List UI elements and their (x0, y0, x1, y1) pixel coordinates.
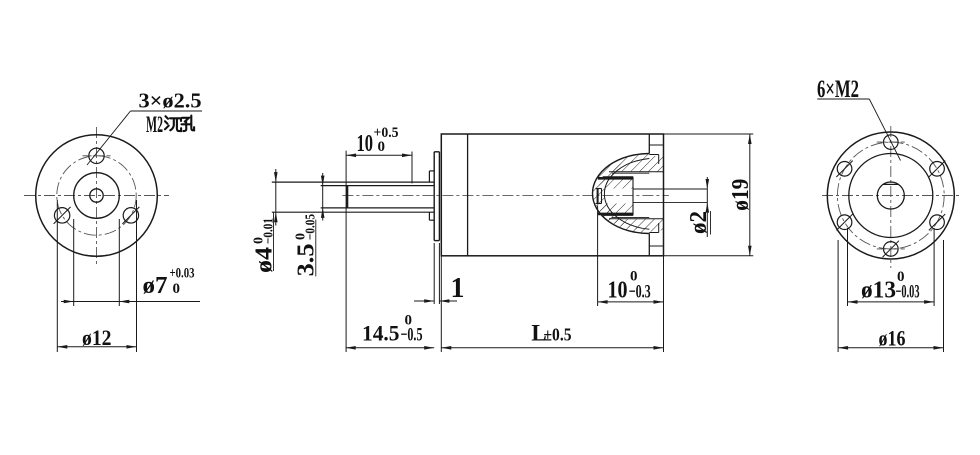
rear bearing dome inner arc (604, 159, 649, 230)
svg-text:0: 0 (378, 139, 386, 155)
right view M2 hole at 150° (837, 162, 852, 177)
left view lower-right hole slash (122, 207, 139, 224)
bearing cap top (596, 188, 602, 190)
ø16 arrow right (934, 346, 944, 350)
svg-text:−0.3: −0.3 (629, 281, 651, 302)
ø13 extension line left (847, 228, 849, 306)
right view M2 hole at 270° (884, 242, 899, 257)
boss top line (429, 170, 434, 172)
svg-text:−0.01: −0.01 (262, 218, 277, 244)
3.5 dimension line (322, 173, 324, 221)
1 dimension line right part (439, 300, 457, 302)
boss bottom line (429, 219, 434, 221)
ø16 dimension line (838, 347, 943, 349)
svg-text:ø2: ø2 (686, 211, 712, 234)
ø4 label underline (273, 212, 275, 271)
leader line to top hole (87, 111, 131, 165)
end cap crimp tick bottom (649, 245, 663, 247)
body left edge lower extension (440, 256, 442, 352)
right view vertical centerline (890, 126, 892, 268)
bearing cap inner edge (601, 189, 603, 204)
character 孔 (182, 116, 195, 132)
end cap seam lower (648, 233, 650, 255)
rear 10 arrow right (654, 300, 664, 304)
ø13 arrow right (924, 300, 934, 304)
ø2 dimension line (706, 177, 708, 237)
L dimension line (441, 347, 663, 349)
bottom band inner line (612, 216, 649, 218)
10 shaft dim extension left (345, 151, 347, 352)
ø16 extension line left (837, 240, 839, 352)
motor body outline (441, 134, 663, 256)
ø7 arrow right (119, 300, 129, 304)
svg-text:−0.05: −0.05 (304, 214, 319, 240)
rear shaft stub top line / ø2 extension (633, 188, 707, 190)
right view horizontal centerline (822, 195, 959, 197)
rear 10 arrow left (598, 300, 608, 304)
right view center bearing circle (877, 182, 904, 209)
top band line (609, 171, 664, 173)
svg-text:ø19: ø19 (728, 179, 754, 211)
bottom band hatch (607, 219, 663, 232)
top band inner line (612, 172, 649, 174)
left view lower-left hole slash (54, 207, 71, 224)
character 沉 (165, 116, 181, 131)
M2 hole slash at 210° (836, 214, 852, 230)
right view motor outline circle ø19 (827, 132, 954, 259)
dome ring hatch (593, 154, 650, 234)
ø19 arrow top (748, 134, 752, 144)
svg-text:±0.5: ±0.5 (544, 325, 572, 345)
svg-text:14.5: 14.5 (362, 321, 400, 346)
ø7 extension line left (73, 219, 75, 306)
svg-text:−0.03: −0.03 (896, 281, 920, 302)
bottom band line (609, 218, 664, 220)
right view M2 hole at 330° (930, 215, 945, 230)
bearing right edge (632, 177, 634, 216)
rear shaft stub bottom line / ø2 extension (633, 202, 707, 204)
10 shaft arrow left (346, 154, 356, 158)
end cap crimp tick top (649, 144, 663, 146)
front plate top edge (434, 151, 439, 153)
3.5 label underline (315, 220, 317, 277)
svg-text:ø16: ø16 (879, 325, 906, 350)
svg-text:+0.03: +0.03 (170, 266, 195, 282)
3.5 arrow top (321, 176, 325, 186)
svg-text:3×ø2.5: 3×ø2.5 (139, 89, 202, 113)
right view M2 hole at 90° (884, 135, 899, 150)
ø13 dimension line (848, 301, 935, 303)
ø2 arrow bottom (706, 203, 710, 213)
shaft top flat line 3.5 (321, 185, 435, 187)
middle view centerline (342, 195, 669, 197)
M2 hole slash at 150° (836, 161, 852, 177)
ø12 dimension line (57, 346, 136, 348)
14.5 arrow left (346, 346, 356, 350)
1 arrow right (439, 299, 449, 303)
svg-text:0: 0 (173, 281, 181, 297)
bearing bottom edge thin (603, 214, 633, 216)
crimp step bottom vertical (658, 223, 660, 233)
ø12 extension line left (56, 200, 58, 352)
rear 10 dim extension line (597, 206, 599, 307)
ø19 extension line bottom (664, 255, 754, 257)
M2 hole slash at 30° (929, 161, 945, 177)
gearbox/motor seam (467, 134, 469, 256)
ø13 arrow left (848, 300, 858, 304)
shaft tip edge (346, 186, 348, 208)
left view vertical centerline (96, 127, 98, 267)
boss face upper edge (428, 171, 430, 182)
left view bolt circle ø12 (dash-dot) (57, 156, 136, 235)
ø4 arrow bottom (274, 212, 278, 222)
shaft top line ø4 (272, 181, 434, 183)
1 dimension line left part (414, 300, 434, 302)
svg-text:6×M2: 6×M2 (817, 76, 859, 103)
ø12 extension line right (136, 200, 138, 352)
ø7 arrow left (64, 300, 74, 304)
left view motor body outline circle ø19 (36, 135, 158, 257)
10 shaft arrow right (402, 154, 412, 158)
L arrow right (654, 346, 664, 350)
right view bolt circle ø16 (dash-dot) (837, 142, 944, 249)
shaft bottom flat line 3.5 (321, 207, 435, 209)
1 arrow left (424, 299, 434, 303)
front plate left edge (433, 152, 435, 241)
crimp step bottom horizontal (649, 232, 658, 234)
left view boss circle ø7 (74, 173, 120, 219)
ø19 extension line top (664, 133, 754, 135)
ø12 arrow right (127, 345, 137, 349)
bearing bottom edge thick (598, 213, 633, 216)
ø13 extension line right (933, 228, 935, 306)
M2 hole slash at 330° (929, 214, 945, 230)
front plate ext line left (433, 243, 435, 304)
bearing cap bottom (596, 203, 602, 205)
front plate right edge (438, 152, 440, 241)
leader underline 6×M2 (817, 98, 869, 100)
ø7 dimension line (61, 301, 200, 303)
end cap seam upper (648, 134, 650, 154)
bearing lower hatch (598, 204, 633, 214)
ø16 extension line right (943, 240, 945, 352)
ø2 label underline (710, 211, 712, 235)
right view top hole horizontal tick (877, 141, 905, 143)
front plate ext line right (438, 243, 440, 304)
top band hatch (607, 155, 663, 172)
svg-text:ø13: ø13 (861, 277, 896, 303)
left view hole ø2.5 top (89, 148, 104, 163)
svg-text:1: 1 (451, 273, 465, 304)
right view M2 hole at 30° (930, 162, 945, 177)
M2 hole slash at 270° (883, 241, 899, 257)
10 shaft dim extension right (411, 152, 413, 184)
ø16 arrow left (838, 346, 848, 350)
svg-text:10: 10 (608, 277, 628, 303)
14.5 dimension line (346, 347, 435, 349)
ø12 arrow left (57, 345, 67, 349)
rear 10 dimension line (598, 301, 664, 303)
boss face lower edge (428, 212, 430, 220)
ø2 arrow top (706, 179, 710, 189)
ø19 dimension line (749, 134, 751, 256)
ø4 arrow top (274, 172, 278, 182)
leader underline 3xø2.5 (131, 110, 203, 112)
bearing top edge thick (598, 177, 633, 180)
right view bearing flat chord (883, 183, 898, 185)
left view horizontal centerline (24, 195, 169, 197)
body right edge lower extension (663, 256, 665, 352)
front plate bottom edge (434, 240, 439, 242)
svg-text:M2: M2 (146, 112, 163, 137)
left view hole ø2.5 lower-right (123, 208, 138, 223)
svg-text:−0.5: −0.5 (401, 325, 423, 346)
bearing upper hatch (598, 178, 633, 188)
left view shaft circle (90, 189, 103, 202)
bearing top edge thin (603, 176, 633, 178)
crimp step top horizontal (649, 154, 658, 156)
svg-text:10: 10 (357, 131, 374, 157)
svg-text:ø12: ø12 (82, 325, 112, 350)
rear bearing dome outer arc (593, 154, 650, 234)
14.5 arrow right (424, 346, 434, 350)
right view rear boss circle ø13 (849, 154, 933, 238)
ø4 dimension line (275, 169, 277, 226)
shaft bottom line ø4 (272, 211, 434, 213)
3.5 arrow bottom (321, 208, 325, 218)
10 shaft dimension line (346, 154, 412, 156)
right view M2 hole at 210° (837, 215, 852, 230)
ø7 extension line right (118, 219, 120, 306)
svg-text:ø7: ø7 (143, 273, 168, 299)
right view bottom hole horizontal tick (877, 248, 905, 250)
L arrow left (441, 346, 451, 350)
ø19 arrow bottom (748, 246, 752, 256)
leader line 6×M2 (869, 99, 900, 161)
left view hole ø2.5 lower-left (54, 208, 69, 223)
left view top hole horizontal tick (83, 155, 111, 157)
bearing cap outer edge (597, 189, 599, 204)
crimp step top vertical (658, 155, 660, 165)
